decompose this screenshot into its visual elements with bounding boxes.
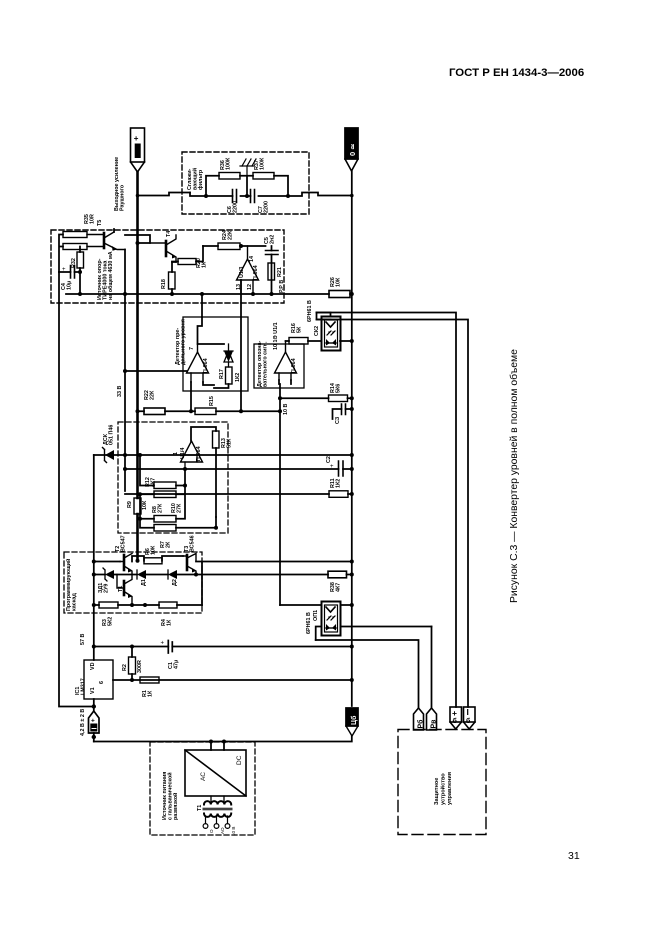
svg-text:+: +	[91, 718, 95, 725]
svg-text:С2: С2	[326, 456, 332, 463]
svg-text:10 В: 10 В	[283, 404, 289, 415]
node R15 c	[189, 409, 193, 413]
wire diode row	[94, 574, 352, 576]
node R26 rail	[350, 292, 354, 296]
wire U1/3 output down	[240, 280, 242, 411]
label R21	[277, 267, 283, 277]
wire left supply rail	[59, 272, 94, 707]
label C2	[326, 456, 332, 463]
node T1 emitter	[130, 603, 134, 607]
resistor R3	[99, 602, 118, 608]
node comp e	[214, 526, 218, 530]
optocoupler OP1	[322, 602, 341, 636]
svg-text:2У9: 2У9	[103, 584, 109, 593]
wire 0 vertical rail	[351, 171, 353, 706]
resistor R17	[226, 367, 233, 384]
svg-text:0 ≃: 0 ≃	[348, 143, 357, 156]
svg-text:Рб: Рб	[417, 719, 425, 729]
wire R14 row	[280, 397, 352, 399]
figure caption	[508, 349, 520, 603]
svg-text:6: 6	[99, 681, 105, 684]
resistor R32	[77, 252, 84, 268]
wire right bus upper	[317, 313, 457, 708]
transistor T4	[150, 235, 176, 262]
node rail y455	[350, 453, 354, 457]
wire ref top	[59, 229, 138, 272]
wire IC1 pins	[93, 699, 95, 711]
node R38 rail	[350, 573, 354, 577]
label R24	[222, 230, 233, 240]
terminal Cb+	[89, 711, 100, 742]
label T2	[115, 535, 126, 552]
svg-text:1К: 1К	[147, 690, 153, 697]
ground symbol	[240, 159, 256, 176]
label T4	[166, 231, 172, 237]
node x125 y469	[123, 467, 127, 471]
label PPB	[279, 280, 285, 293]
label R3	[102, 617, 113, 626]
svg-text:TL064: TL064	[203, 358, 209, 374]
svg-text:СЗ: СЗ	[335, 416, 341, 424]
wire T4 emitter	[172, 262, 176, 294]
svg-text:Защитное: Защитное	[434, 778, 440, 805]
terminal Pv	[427, 708, 438, 730]
terminal 0 (output)	[345, 128, 358, 171]
node T2 base rail	[136, 559, 140, 563]
header title	[449, 67, 584, 79]
label C1	[168, 660, 179, 669]
node comp b	[138, 492, 142, 496]
protection dashed box	[398, 730, 486, 835]
label IC1	[75, 662, 105, 695]
label CK2	[307, 300, 320, 336]
svg-text:13: 13	[236, 284, 242, 290]
reference source dashed box	[51, 230, 284, 303]
svg-text:СК2: СК2	[314, 326, 320, 336]
svg-text:DС: DС	[236, 755, 243, 765]
diode D8	[224, 344, 233, 367]
wire R16 row	[286, 340, 352, 342]
resistor R20	[178, 259, 196, 265]
wire R24 row	[203, 245, 266, 247]
capacitor C3	[333, 404, 352, 419]
detector1 box	[183, 317, 248, 391]
label R10	[171, 503, 182, 513]
wire R2	[131, 647, 133, 681]
comparator dashed box	[118, 422, 228, 533]
svg-text:LM317: LM317	[80, 678, 86, 695]
zener ZD2	[103, 448, 115, 463]
label T5	[97, 220, 103, 226]
wire comparator rows	[140, 455, 216, 528]
label R16	[291, 323, 302, 333]
capacitor C1	[161, 641, 173, 654]
label R6	[145, 545, 156, 555]
wire R1 row y680	[113, 679, 352, 681]
resistor R36	[219, 173, 240, 180]
node PSU pin a	[209, 740, 213, 744]
svg-text:+: +	[161, 641, 165, 647]
svg-text:R9: R9	[127, 501, 133, 508]
wire detector1 ref input	[125, 370, 187, 372]
svg-text:ВС547: ВС547	[120, 535, 126, 552]
op-amp U1/2	[187, 344, 209, 382]
wire ref bottom rail	[66, 293, 329, 295]
node filter b	[286, 194, 290, 198]
wire CK2 pins	[317, 313, 331, 320]
op-amp U1/3	[237, 246, 259, 294]
label R7	[160, 541, 171, 548]
resistor R18	[169, 272, 176, 289]
node stage bottom left	[92, 603, 96, 607]
wire C2 row	[125, 468, 339, 470]
svg-text:TL064: TL064	[196, 446, 202, 462]
svg-text:Т5: Т5	[97, 220, 103, 226]
svg-text:5К6: 5К6	[335, 384, 341, 393]
svg-text:Р.Р В: Р.Р В	[279, 280, 285, 293]
zener ZD1	[103, 568, 114, 581]
svg-text:57 В: 57 В	[80, 634, 86, 645]
svg-text:2н2: 2н2	[269, 235, 275, 244]
svg-text:100К: 100К	[225, 157, 231, 170]
svg-text:каскад: каскад	[71, 593, 77, 611]
wire mid-left rail x94	[93, 455, 95, 660]
node comp d	[183, 484, 187, 488]
node det1 ref	[123, 369, 127, 373]
label smoothing filter	[187, 168, 204, 190]
wire filter right	[309, 193, 352, 196]
svg-text:10 В: 10 В	[231, 827, 236, 836]
label R13	[221, 438, 232, 448]
wire right bus lower	[317, 313, 469, 708]
node diode row left	[92, 573, 96, 577]
wire 3.3V rail x125	[124, 250, 126, 492]
svg-text:22К: 22К	[227, 230, 233, 240]
node filter c	[245, 194, 249, 198]
svg-text:7: 7	[189, 347, 195, 350]
capacitor C2	[330, 461, 352, 476]
label C4	[61, 281, 72, 290]
node x202	[200, 292, 204, 296]
node rail y561	[350, 560, 354, 564]
wire filter internal	[190, 176, 309, 196]
label detector2	[257, 340, 268, 387]
svg-text:U1/4: U1/4	[180, 448, 186, 459]
node comp a	[138, 453, 142, 457]
label C5	[264, 235, 275, 244]
wire C5	[271, 246, 273, 294]
label R37	[254, 157, 265, 170]
label detector1	[175, 319, 186, 365]
terminal Pb	[414, 708, 425, 730]
resistor R22	[144, 408, 165, 415]
svg-text:Т4: Т4	[166, 231, 172, 237]
svg-text:051 П46: 051 П46	[108, 425, 114, 445]
label 10 V	[283, 404, 289, 415]
svg-text:6РН61 В: 6РН61 В	[307, 300, 313, 322]
svg-text:1: 1	[173, 452, 179, 455]
wire det1 internal	[191, 382, 229, 411]
label 3,3 V	[117, 386, 123, 397]
label driver stage	[65, 559, 77, 611]
svg-text:Рисунок С.3 — Конвертер уровне: Рисунок С.3 — Конвертер уровней в полном…	[508, 349, 520, 603]
svg-text:2200: 2200	[263, 201, 269, 213]
transistor T1	[117, 575, 132, 606]
svg-text:АО: АО	[220, 827, 225, 834]
resistor R37	[253, 173, 274, 180]
resistor R2	[129, 657, 136, 674]
resistor R38	[328, 571, 347, 578]
svg-text:VD: VD	[90, 662, 96, 670]
svg-text:R18: R18	[161, 279, 167, 289]
wire det1 top	[198, 317, 225, 344]
label R20	[196, 258, 207, 268]
label 42V	[80, 709, 86, 736]
node ref rail b	[170, 292, 174, 296]
svg-text:1К: 1К	[166, 619, 172, 626]
node inv input	[183, 467, 187, 471]
label R1	[142, 690, 153, 697]
resistor R8	[154, 516, 176, 523]
wire IC1 row y647	[94, 646, 352, 648]
resistor R13	[213, 431, 220, 448]
page number 31	[568, 850, 580, 862]
wire R20	[172, 246, 203, 262]
label R2	[122, 660, 143, 673]
svg-text:АС: АС	[200, 772, 207, 781]
wire R11 row	[125, 493, 329, 495]
detector2 box	[254, 344, 304, 388]
node rail y647	[350, 645, 354, 649]
node 10V	[278, 396, 282, 400]
node stage top left	[92, 560, 96, 564]
svg-text:R17: R17	[219, 369, 225, 379]
svg-text:2К: 2К	[165, 541, 171, 548]
node R22 rail	[136, 409, 140, 413]
resistor R15	[195, 408, 216, 415]
terminal +B	[450, 707, 462, 729]
wire inverting input	[184, 469, 186, 486]
label ZD1	[98, 583, 109, 593]
svg-text:5К: 5К	[296, 326, 302, 333]
node R24 out	[239, 244, 243, 248]
label 5,7 V	[80, 634, 86, 645]
terminal +Um	[131, 128, 145, 172]
resistor R35b	[63, 244, 87, 250]
transformer T1	[203, 796, 232, 817]
label R38	[330, 582, 341, 592]
label R32	[71, 258, 77, 268]
node R16 rail	[350, 339, 354, 343]
svg-text:4К7: 4К7	[335, 583, 341, 592]
node OP1 rail	[350, 603, 354, 607]
label R4	[161, 619, 172, 626]
label R35	[84, 214, 95, 224]
svg-text:TL064: TL064	[291, 358, 297, 374]
svg-text:+: +	[330, 464, 334, 470]
svg-text:10 1Θ U1/1: 10 1Θ U1/1	[273, 322, 279, 350]
resistor R24	[218, 243, 240, 250]
capacitor C6	[233, 190, 237, 203]
node ref rail c	[251, 292, 255, 296]
label T1	[118, 586, 124, 592]
node C2 rail	[350, 467, 354, 471]
node filter a	[204, 194, 208, 198]
svg-text:Цб: Цб	[350, 715, 358, 725]
svg-text:R32: R32	[71, 258, 77, 268]
svg-text:дельного уровня: дельного уровня	[180, 319, 186, 365]
label D2	[172, 579, 178, 586]
label reference source	[97, 251, 114, 300]
node diode row right	[194, 573, 198, 577]
svg-text:4,2 В ± 2 В: 4,2 В ± 2 В	[80, 709, 86, 736]
wire bottom link y741	[94, 736, 352, 742]
svg-text:+: +	[452, 708, 457, 718]
node R11 rail	[350, 492, 354, 496]
resistor R10	[154, 491, 176, 498]
optocoupler CK2	[322, 317, 341, 351]
resistor R26	[329, 291, 350, 298]
node Cb junction	[92, 704, 96, 708]
svg-text:10К: 10К	[142, 500, 148, 510]
label C6	[227, 201, 238, 213]
wire filter left	[138, 193, 191, 196]
label T3	[184, 535, 195, 552]
svg-text:31: 31	[568, 850, 580, 862]
wire OP1 pins	[280, 605, 432, 640]
node R2 top	[130, 645, 134, 649]
PSU dashed box	[150, 742, 255, 835]
wire R32	[79, 247, 81, 295]
label R12	[145, 477, 156, 487]
svg-text:2200: 2200	[232, 201, 238, 213]
svg-text:47μ: 47μ	[173, 660, 179, 669]
svg-text:Д2: Д2	[172, 579, 178, 586]
wire stage top rail	[94, 556, 352, 605]
diode D2	[168, 570, 177, 579]
op-amp U1/4	[181, 441, 203, 469]
label U1/4	[173, 446, 202, 462]
node PSU pin b	[222, 740, 226, 744]
label protection	[434, 772, 453, 805]
svg-text:300R: 300R	[137, 660, 143, 673]
label PSU terminals	[209, 827, 236, 836]
capacitor C7	[251, 190, 255, 203]
svg-text:б: б	[453, 717, 458, 725]
node C3 rail	[350, 407, 354, 411]
node R15 b	[278, 409, 282, 413]
diode D1	[137, 570, 146, 579]
svg-text:TL064: TL064	[253, 265, 259, 281]
resistor R9	[134, 498, 141, 514]
wire T4 base	[138, 235, 151, 243]
svg-text:27К: 27К	[157, 503, 163, 513]
svg-text:51К: 51К	[226, 438, 232, 448]
label T1	[197, 805, 203, 811]
svg-text:развязкой: развязкой	[172, 793, 179, 820]
wire stage bottom rail	[94, 604, 202, 606]
svg-text:фильтр: фильтр	[197, 169, 204, 190]
label OP1	[306, 610, 319, 634]
resistor R7	[154, 525, 176, 532]
label R36	[220, 157, 231, 170]
wire opto1 to tag A	[316, 640, 419, 708]
label R18	[161, 279, 167, 289]
svg-text:управления: управления	[447, 772, 453, 805]
svg-text:V1: V1	[90, 687, 96, 694]
label PSU	[162, 772, 179, 820]
svg-text:R2: R2	[122, 664, 128, 671]
label U1/3	[236, 256, 259, 290]
node R14 rail	[350, 396, 354, 400]
svg-text:10К: 10К	[335, 277, 341, 287]
wire R15 row	[138, 410, 281, 412]
svg-text:ОП1: ОП1	[313, 610, 319, 621]
svg-text:10К: 10К	[150, 545, 156, 555]
label R9	[127, 500, 148, 510]
wire R11 to rail	[348, 493, 352, 495]
capacitor C4	[59, 266, 80, 279]
svg-text:Т1: Т1	[118, 586, 124, 592]
resistor R21	[268, 263, 275, 280]
label D1	[141, 579, 147, 586]
svg-text:+: +	[134, 134, 139, 143]
node rail y680	[350, 678, 354, 682]
transistor T2	[120, 554, 132, 575]
svg-text:27К: 27К	[176, 503, 182, 513]
capacitor C5	[266, 251, 279, 255]
label U1/1	[273, 322, 297, 374]
resistor R16	[289, 338, 308, 345]
node stage bottom	[143, 603, 147, 607]
smoothing filter dashed box	[182, 152, 309, 214]
svg-text:1К2: 1К2	[335, 479, 341, 488]
svg-text:Раушного: Раушного	[119, 184, 125, 211]
resistor R14	[329, 395, 348, 402]
wire +Um vertical rail	[136, 172, 139, 560]
node T4	[136, 241, 140, 245]
node comp c	[138, 517, 142, 521]
svg-text:ВС546: ВС546	[189, 535, 195, 552]
IC1 LM317 box	[84, 660, 113, 699]
node ref rail d	[270, 292, 274, 296]
svg-text:5К2: 5К2	[107, 617, 113, 626]
svg-text:10μ: 10μ	[66, 281, 72, 290]
label C3	[335, 416, 341, 424]
node C4	[78, 270, 82, 274]
svg-text:R21: R21	[277, 267, 283, 277]
svg-text:14: 14	[249, 256, 255, 262]
resistor R35a	[63, 232, 87, 238]
resistor R12	[154, 482, 176, 489]
node x94 y647	[92, 645, 96, 649]
svg-text:12: 12	[247, 284, 253, 290]
svg-text:22К: 22К	[149, 390, 155, 400]
label output amplifier	[114, 157, 125, 211]
svg-text:33 В: 33 В	[117, 386, 123, 397]
resistor R6	[144, 558, 162, 564]
svg-text:U1/3: U1/3	[239, 267, 245, 278]
label R8	[152, 503, 163, 513]
driver stage dashed box	[64, 552, 202, 613]
label R14	[330, 383, 341, 393]
wire R26 to rail	[350, 293, 352, 295]
label R22	[144, 390, 155, 400]
node 0 / filter	[350, 194, 354, 198]
node ref rail x125	[123, 292, 127, 296]
label R26	[330, 277, 341, 287]
resistor R1	[140, 677, 159, 683]
